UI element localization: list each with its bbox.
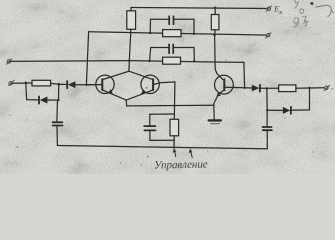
resistor R5 (control) xyxy=(170,119,179,136)
arrow control 1 xyxy=(174,150,176,157)
node diode D2 branch xyxy=(25,82,28,85)
capacitor C5 plates xyxy=(263,126,272,128)
wire top supply rail xyxy=(131,8,267,9)
wire node down to C1 xyxy=(57,100,59,121)
wire fork to Q1 collector xyxy=(102,71,128,79)
resistor R3 (right collector load) xyxy=(211,15,219,30)
terminal wire A right xyxy=(267,34,270,37)
wire emitters V join xyxy=(125,100,128,106)
resistor R1in (input) xyxy=(32,80,51,86)
input terminal left xyxy=(9,82,12,85)
node Q3 base T xyxy=(244,87,246,89)
terminal output xyxy=(325,86,328,89)
wire emitter bus xyxy=(127,104,214,107)
wire cap C4 stem bottom xyxy=(149,131,151,140)
node RC2 right xyxy=(193,60,195,62)
arrow control 2 xyxy=(190,150,192,158)
wire R1in to node xyxy=(51,82,59,85)
node wireA/R3 junction xyxy=(213,34,215,36)
node after R1in xyxy=(58,83,61,86)
capacitor C2 loop right xyxy=(174,19,194,34)
capacitor C4 plates xyxy=(144,125,155,127)
terminal wire B left xyxy=(7,60,10,63)
wire bottom bus xyxy=(57,146,267,149)
wire input to R1in xyxy=(13,82,33,84)
node cap C5 branch xyxy=(266,109,268,111)
wire diode D4 loop xyxy=(292,88,310,110)
wire right cap chain xyxy=(266,88,268,126)
capacitor C3 loop right xyxy=(174,48,194,62)
node R1/wireB junction xyxy=(128,59,130,61)
ground xyxy=(213,105,215,119)
wire Q2 base drop to control RC xyxy=(173,82,176,119)
wire node up xyxy=(58,84,60,100)
svg-text:Управление: Управление xyxy=(154,159,208,172)
resistor R2 (in wire A) xyxy=(163,30,181,37)
capacitor C3 loop left xyxy=(150,48,169,62)
pencil scribbles top right xyxy=(294,1,308,28)
transistor Q2 xyxy=(141,75,159,93)
wire fork to Q2 collector xyxy=(129,71,153,79)
terminal Ek xyxy=(267,7,270,10)
node base junction xyxy=(85,84,87,86)
node RC1 right xyxy=(193,33,195,35)
wire C5 to bus xyxy=(266,131,268,149)
wire D2 to node xyxy=(47,99,58,101)
transistor Q3 xyxy=(215,75,234,94)
wire R6 to output terminal xyxy=(296,87,325,89)
resistor R6 (output) xyxy=(279,85,296,92)
capacitor C2 loop left xyxy=(150,19,168,33)
diode D3 xyxy=(245,87,252,89)
wire cap C4 stem top xyxy=(149,114,151,125)
capacitor C3 plates xyxy=(168,44,170,53)
pencil specks xyxy=(10,15,333,165)
wire D2 branch down xyxy=(26,83,39,100)
capacitor C1 plates xyxy=(53,121,63,123)
node top junction xyxy=(214,7,216,9)
control RC: loop top xyxy=(150,113,175,115)
wire B corner down to Q3 base node xyxy=(243,62,246,87)
wire A (upper coupling line) xyxy=(89,32,267,35)
wire Q2 base to corner xyxy=(153,82,175,85)
node blob at bus crossing xyxy=(174,105,176,107)
resistor R1 (left collector load) xyxy=(127,11,136,30)
wire R_right top stub xyxy=(214,8,216,15)
wire R1 bottom down to fork xyxy=(129,29,131,71)
wire C1 to bus xyxy=(56,127,58,146)
wire B (lower coupling line) xyxy=(9,61,244,63)
wire R5 bottom xyxy=(173,136,175,140)
node RC2 left xyxy=(148,60,150,62)
paper background xyxy=(0,0,335,174)
wire A left drop to Q1 base xyxy=(86,32,88,85)
wire drop to bus xyxy=(173,140,175,148)
wire R_left top stub xyxy=(130,8,132,11)
wire loop bottom xyxy=(150,139,174,141)
diode D4 xyxy=(290,107,292,114)
pencil dot and hook xyxy=(310,2,313,5)
resistor R4 (in wire B) xyxy=(163,57,181,64)
node RC1 left xyxy=(149,32,151,34)
node diode/cap junction xyxy=(266,87,268,89)
capacitor C2 plates xyxy=(168,16,170,24)
transistor Q1 xyxy=(96,75,114,93)
diode D2 xyxy=(38,96,40,103)
wire D1 to Q1 base xyxy=(75,84,96,86)
node output junction xyxy=(308,87,310,89)
wire R3 down to Q3 collector xyxy=(215,30,223,80)
diode D1 xyxy=(59,83,67,85)
